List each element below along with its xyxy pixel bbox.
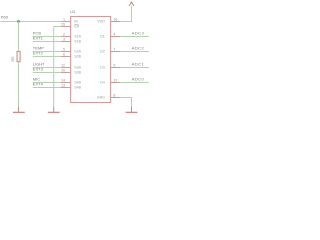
svg-text:11: 11 <box>61 63 65 67</box>
wire resistor bottom to ground <box>18 63 20 108</box>
wire net ADC0 <box>120 82 148 84</box>
ground symbol middle <box>48 107 60 112</box>
pin 12 D4 lead <box>111 82 121 84</box>
svg-text:S1B: S1B <box>74 40 81 44</box>
wire net EXT4 <box>33 87 61 89</box>
svg-text:5: 5 <box>63 47 65 51</box>
svg-text:ADC3: ADC3 <box>132 30 145 35</box>
pin 13 S4B lead <box>61 87 71 89</box>
svg-text:EXT3: EXT3 <box>33 66 44 71</box>
ground symbol left <box>13 107 25 112</box>
svg-text:S4B: S4B <box>74 86 81 90</box>
svg-text:S4A: S4A <box>74 81 81 85</box>
wire net ADC1 <box>120 67 148 69</box>
wire net LIGHT <box>33 67 61 69</box>
pin 7 D2 lead <box>111 51 121 53</box>
svg-text:EN: EN <box>74 25 79 29</box>
svg-text:EXT1: EXT1 <box>33 35 44 40</box>
svg-text:4: 4 <box>113 32 115 36</box>
pin 16 VDD lead <box>111 21 121 23</box>
pin 15 EN lead <box>61 26 71 28</box>
wire VCC vertical <box>131 6 133 22</box>
svg-text:D2: D2 <box>100 50 105 54</box>
svg-text:ADC0: ADC0 <box>132 76 145 81</box>
svg-text:S2A: S2A <box>74 50 81 54</box>
svg-text:S3A: S3A <box>74 66 81 70</box>
pin 11 S3A lead <box>61 67 71 69</box>
svg-text:IN: IN <box>74 20 78 24</box>
pin 4 D1 lead <box>111 36 121 38</box>
ground symbol right <box>126 107 138 112</box>
wire net ADC2 <box>120 51 148 53</box>
resistor R5 <box>17 52 20 62</box>
svg-text:P60: P60 <box>1 15 9 20</box>
svg-text:7: 7 <box>113 47 115 51</box>
pin 3 S1B lead <box>61 41 71 43</box>
pin 5 S2A lead <box>61 51 71 53</box>
pin 8 GND lead <box>111 97 121 99</box>
svg-text:EXT2: EXT2 <box>33 50 44 55</box>
svg-text:6: 6 <box>63 52 65 56</box>
pin 1 IN lead <box>61 21 71 23</box>
svg-text:14: 14 <box>61 78 65 82</box>
IC U1 body outline <box>71 17 111 103</box>
wire VDD to VCC riser <box>120 21 132 23</box>
wire net MIC <box>33 82 61 84</box>
wire net TEMP <box>33 51 61 53</box>
svg-text:R5: R5 <box>11 57 15 62</box>
pin 14 S4A lead <box>61 82 71 84</box>
wire net EXT1 <box>33 41 61 43</box>
svg-text:S2B: S2B <box>74 55 81 59</box>
wire net P60 top horizontal <box>1 21 61 23</box>
svg-text:D4: D4 <box>100 81 105 85</box>
wire net POS <box>33 36 61 38</box>
svg-text:D1: D1 <box>100 35 105 39</box>
VCC supply arrow symbol <box>129 2 133 6</box>
svg-text:ADC1: ADC1 <box>132 61 145 66</box>
wire vertical from junction to resistor R5 <box>18 22 20 52</box>
svg-text:S3B: S3B <box>74 71 81 75</box>
svg-text:3: 3 <box>63 37 65 41</box>
svg-text:U1: U1 <box>70 10 75 14</box>
svg-text:2: 2 <box>63 32 65 36</box>
wire net EN vertical down to ground <box>53 27 55 108</box>
svg-text:VDD: VDD <box>97 20 105 24</box>
wire net ADC3 <box>120 36 148 38</box>
wire net EN horizontal to pin 15 <box>54 26 61 28</box>
svg-text:GND: GND <box>97 96 105 100</box>
svg-text:EXT4: EXT4 <box>33 81 44 86</box>
svg-text:10: 10 <box>61 68 65 72</box>
wire GND pin to ground drop <box>120 97 132 99</box>
svg-text:15: 15 <box>61 22 65 26</box>
wire net EXT3 <box>33 72 61 74</box>
pin 9 D3 lead <box>111 67 121 69</box>
svg-text:1: 1 <box>63 17 65 21</box>
junction dot at P60 branch <box>17 20 20 23</box>
svg-text:9: 9 <box>113 63 115 67</box>
svg-text:8: 8 <box>113 93 115 97</box>
svg-text:16: 16 <box>113 17 117 21</box>
wire ground vertical right <box>131 98 133 108</box>
pin name EN with overline <box>74 24 79 28</box>
svg-text:D3: D3 <box>100 66 105 70</box>
pin 2 S1A lead <box>61 36 71 38</box>
svg-text:ADC2: ADC2 <box>132 45 145 50</box>
svg-text:12: 12 <box>113 78 117 82</box>
svg-text:S1A: S1A <box>74 35 81 39</box>
wire net EXT2 <box>33 56 61 58</box>
pin 6 S2B lead <box>61 56 71 58</box>
pin 10 S3B lead <box>61 72 71 74</box>
svg-text:13: 13 <box>61 83 65 87</box>
